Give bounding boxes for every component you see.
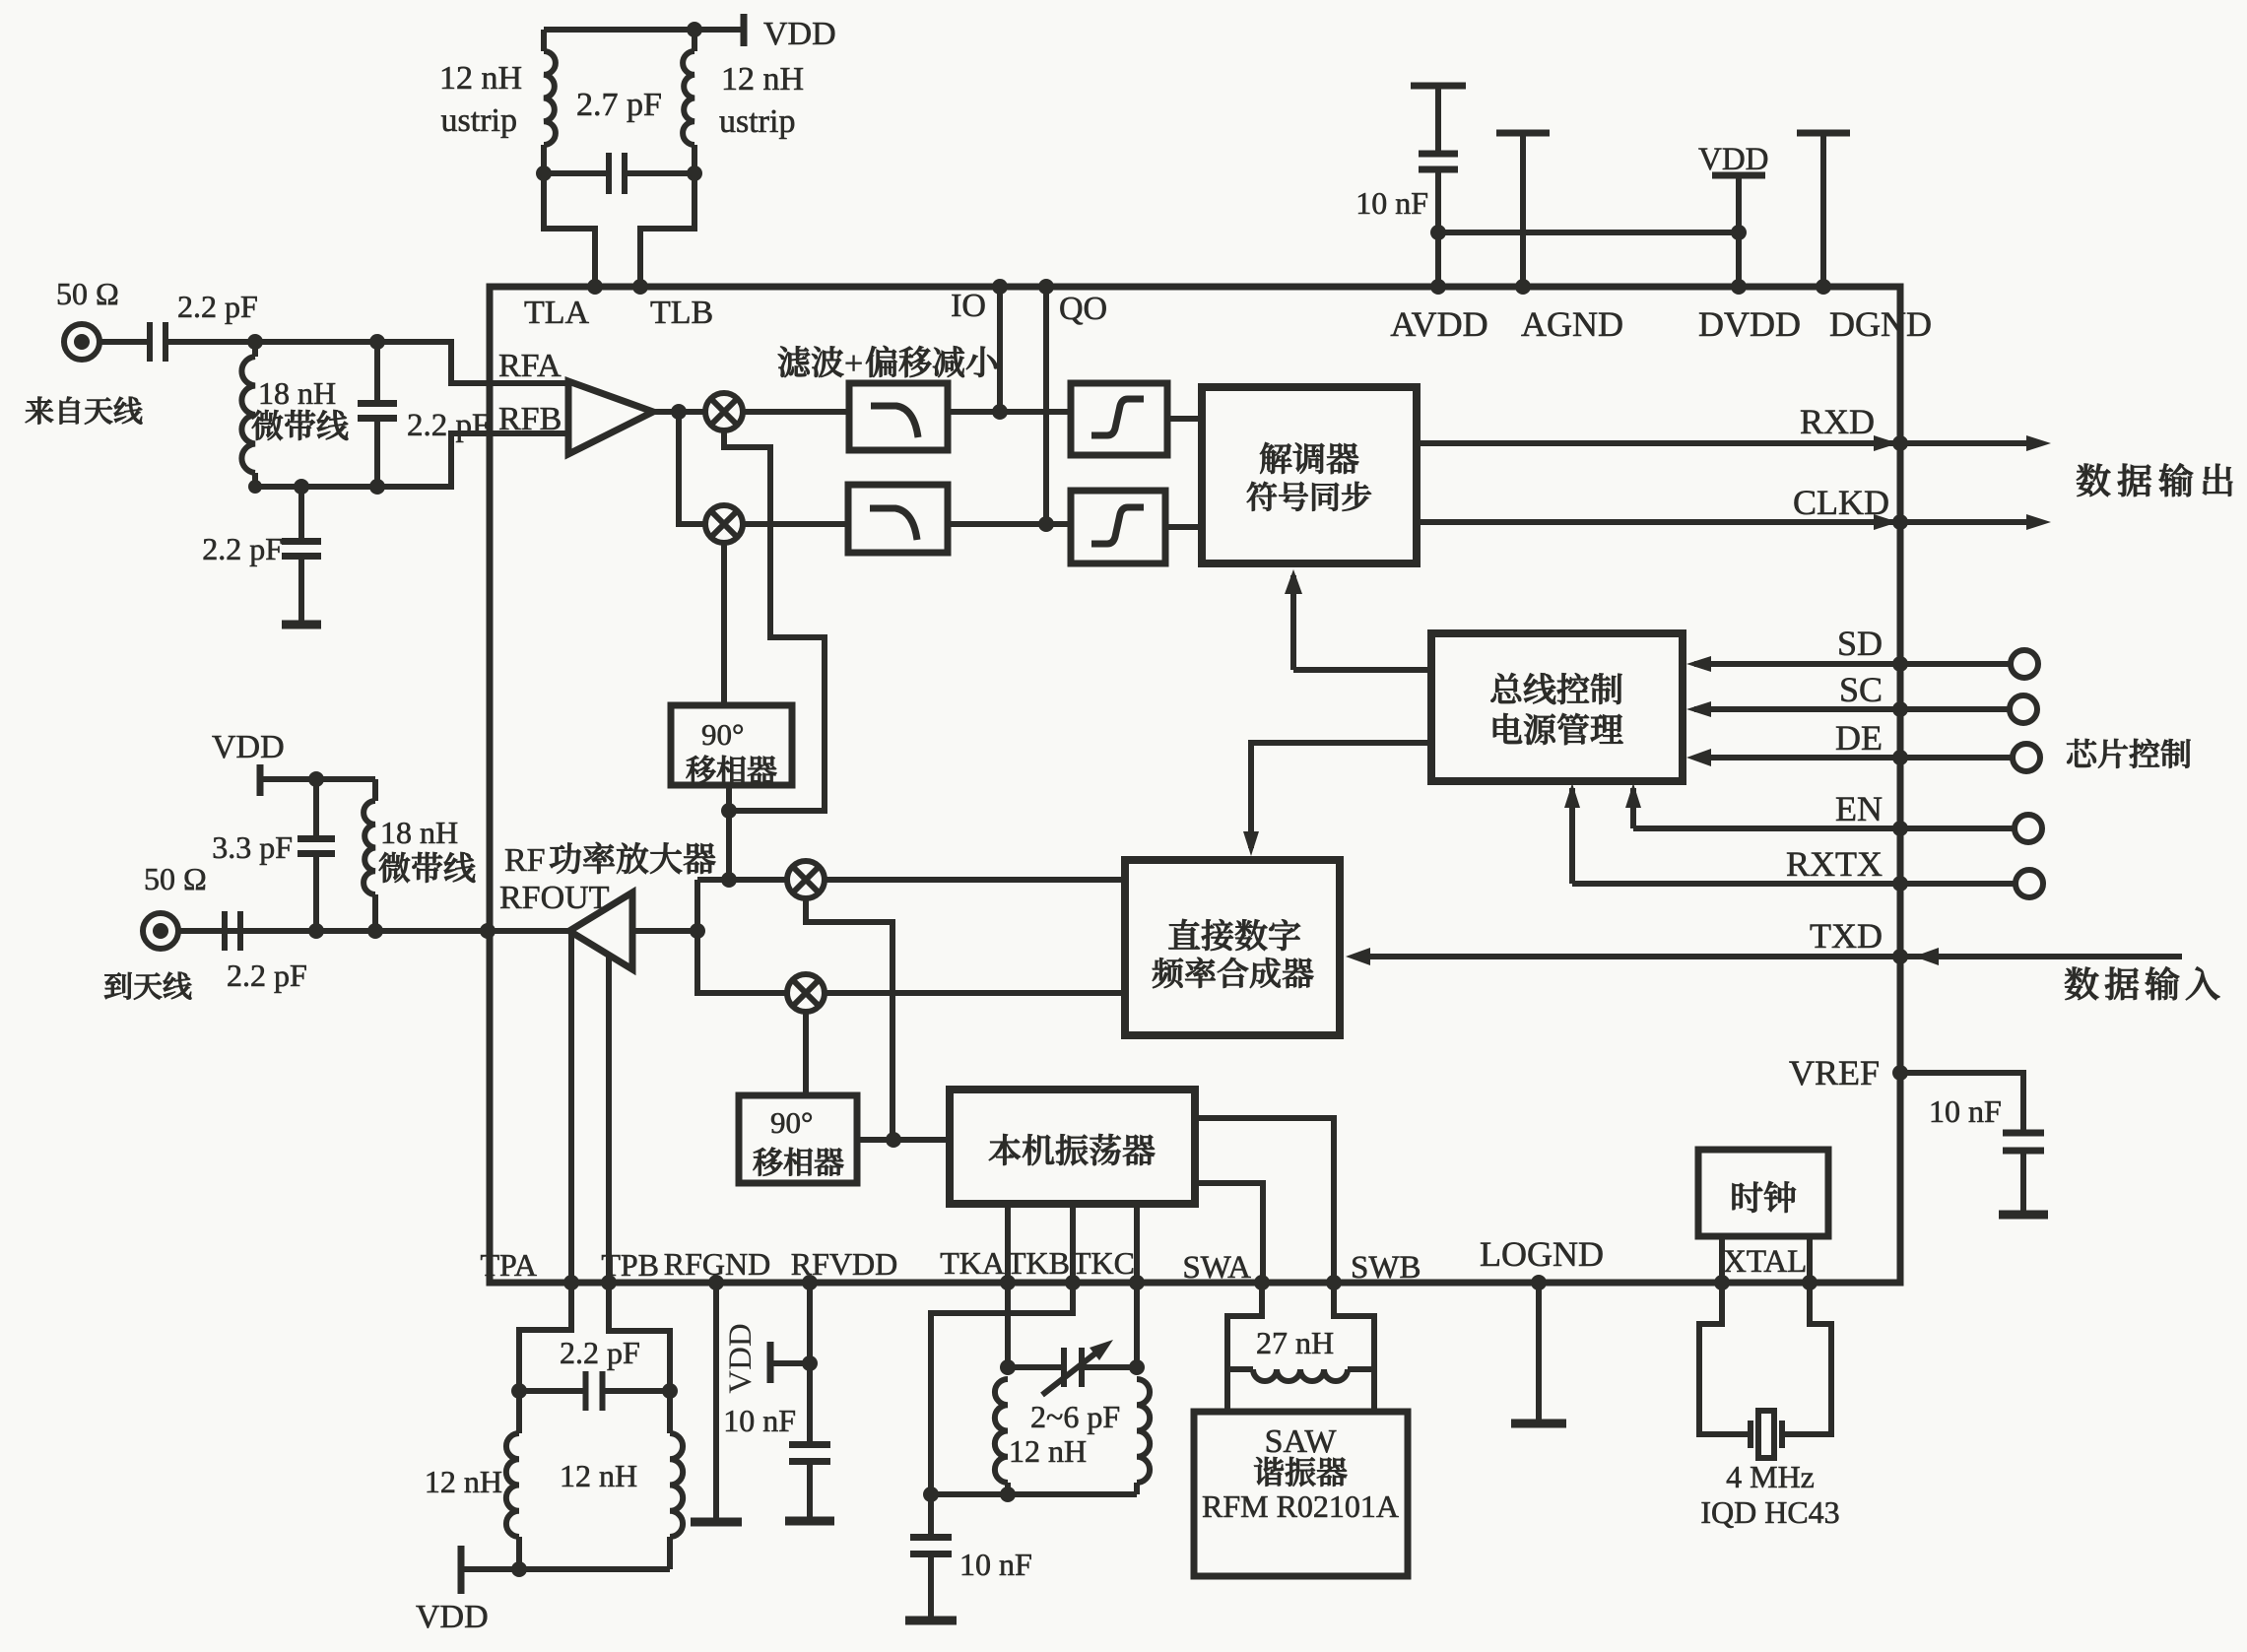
wire TXD to DDS [1354,954,1900,959]
wire TXD external [1900,954,2182,959]
wire tank bottom rail [461,1566,670,1572]
node DGND pin [1816,279,1831,295]
svg-text:TLA: TLA [524,295,590,331]
node tank left [536,165,552,181]
wire F1 to S1 (I row) [948,409,1071,415]
label microstrip (TX) [379,852,475,883]
arrow EN into box bottom [1625,783,1641,808]
mixer M3 (TX I) [787,861,825,898]
wire TPA [568,934,574,1283]
inductor L2 12 nH ustrip (right) [692,145,697,173]
IC U1 RF transceiver boundary box [490,287,1900,1283]
svg-text:TLB: TLB [650,295,713,331]
svg-text:RF: RF [504,842,546,879]
terminal J2 antenna connector (TX) [143,913,178,949]
svg-text:VDD: VDD [416,1599,489,1635]
node RFOUT pin on edge [480,923,496,939]
node TPB [601,1275,617,1290]
svg-text:50 Ω: 50 Ω [144,861,207,896]
capacitor C12 10 nF (AVDD) [1419,154,1458,169]
arrow SD into box [1686,656,1711,672]
svg-text:VDD: VDD [1698,142,1769,177]
node shunt tap [294,479,309,495]
arrow into demod [1285,569,1302,594]
power VDD terminal (RFVDD) [767,1342,774,1383]
wire RFVDD down [807,1283,813,1363]
wire tank bottom [931,1491,1137,1497]
node L3 top [247,334,263,350]
svg-text:SWA: SWA [1182,1250,1251,1286]
capacitor C7 2.2 pF (TP tank) [519,1388,586,1394]
wire DE [1694,755,1900,760]
wire LO to SWB [1195,1118,1334,1283]
terminal SC [2010,695,2037,723]
wire crystal loop left [1699,1283,1751,1434]
wire TKC [1134,1204,1140,1283]
inductor L6 12 nH (right) [667,1391,673,1433]
node shifter bottom [721,803,737,819]
wire RXD external [1900,440,2027,446]
svg-text:LOGND: LOGND [1480,1234,1604,1274]
wire LNA output [653,409,705,415]
svg-text:10 nF: 10 nF [723,1403,796,1438]
wire M1 to F1 [743,409,849,415]
wire M4 to DDS [825,990,1125,996]
svg-text:ustrip: ustrip [441,102,517,139]
svg-text:2.2 pF: 2.2 pF [202,531,283,566]
wire LO node to amp input riser [697,877,729,883]
svg-text:RFA: RFA [498,348,562,384]
wire crystal loop right [1782,1283,1831,1434]
arrow RXD at bus [1874,435,1898,451]
svg-text:SAW: SAW [1265,1423,1338,1460]
block U3 bus control / power management [1431,633,1683,781]
capacitor C5 2.2 pF (TX series) [225,911,240,951]
node tank TPA [511,1383,527,1399]
svg-text:CLKD: CLKD [1793,483,1889,522]
inductor L4 18 nH microstrip (TX) [372,779,378,801]
wire RFA stub [490,380,568,386]
wire F2 to S2 (Q row) [948,521,1071,527]
svg-text:VDD: VDD [763,16,836,52]
svg-text:2~6 pF: 2~6 pF [1030,1399,1120,1434]
label from-antenna [26,397,142,425]
node TX LO junction [886,1132,901,1148]
node SWA [1254,1275,1270,1290]
svg-text:RFM R02101A: RFM R02101A [1202,1488,1399,1524]
node TXD [1892,949,1908,964]
node TPA [563,1275,579,1290]
wire VDD rail (TX match) [260,776,375,782]
capacitor C11 10 nF (tank) [928,1494,934,1537]
node L3 bottom [248,480,262,494]
svg-text:12 nH: 12 nH [721,61,804,98]
block U8 SAW resonator [1194,1412,1408,1576]
wire to mixer M2 [679,412,705,524]
svg-text:12 nH: 12 nH [560,1458,637,1493]
wire TX shifter to LO [857,1137,950,1143]
ground (RX shunt) [282,621,321,629]
wire VREF to C10 [1900,1073,2023,1133]
block U5 90-degree phase shifter (TX) [739,1095,857,1183]
wire TPB to tank [609,1283,670,1391]
block U4 direct digital frequency synthesizer [1125,860,1340,1035]
wire S1 to demod [1167,416,1202,422]
power terminal VDD (DVDD) [1712,172,1765,179]
amplifier A1 LNA [568,381,653,454]
node RXD pin [1892,435,1908,451]
arrow TXD at bus [1914,948,1939,965]
capacitor C10 10 nF (VREF) [2003,1133,2044,1151]
ground (LOGND) [1511,1420,1566,1428]
svg-text:VDD: VDD [723,1323,759,1394]
wire TLB lead [640,173,694,287]
svg-text:2.2 pF: 2.2 pF [177,289,258,324]
node XTAL A [1714,1275,1730,1290]
node tank right [687,165,702,181]
wire RFOUT row [178,928,569,934]
node RFVDD/VDD junction [802,1355,818,1371]
node RXTX [1892,876,1908,892]
wire LOGND to ground [1536,1283,1542,1423]
wire LO node to M3 [729,877,787,883]
amplifier A2 RF power amp [569,892,632,969]
node TLA pin [587,279,603,295]
wire SD [1694,661,1900,667]
inductor L9 27 nH [1227,1366,1253,1372]
svg-text:12 nH: 12 nH [439,60,522,97]
label microstrip (RX) [252,410,348,440]
capacitor C4 2.2 pF (RX shunt) [298,487,304,541]
svg-text:SD: SD [1837,624,1883,663]
wire CLKD out [1417,519,1900,525]
terminal SD [2011,650,2038,678]
wire C2 to RFA node [165,342,490,383]
svg-text:XTAL: XTAL [1723,1244,1807,1280]
wire TKB jog to cap [931,1283,1073,1494]
wire tank top [544,27,744,33]
power VDD terminal (TP tank) [458,1546,465,1594]
label to-antenna [104,972,191,1000]
wire M3 LO port [806,898,892,1140]
ground (RFVDD cap) [785,1517,834,1526]
wire bus box to DDS [1251,743,1431,848]
wire S2 to demod [1165,524,1202,530]
svg-text:TKB: TKB [1007,1245,1070,1281]
svg-text:12 nH: 12 nH [1009,1433,1087,1469]
wire EN [1633,826,1900,831]
terminal DE [2013,744,2040,771]
svg-text:12 nH: 12 nH [425,1464,502,1499]
node varactor right [1129,1359,1145,1375]
wire LO to SWA [1195,1183,1263,1283]
power VDD terminal (top) [741,14,748,46]
node IO tap [992,404,1008,420]
node amp input junction [690,923,705,939]
wire CLKD external [1900,519,2027,525]
arrow SC into box [1686,701,1711,717]
wire RFB stub [490,430,568,436]
inductor L8 12 nH (right) [1137,1379,1150,1483]
node RFGND [708,1275,724,1290]
wire connector to C2 [99,339,150,345]
node tank TPB [662,1383,678,1399]
svg-text:TXD: TXD [1810,916,1883,956]
wire TKB [1070,1204,1076,1283]
wire demod sync input [1293,667,1431,673]
node DVDD pin [1731,279,1747,295]
wire M2 to F2 [743,521,848,527]
wire AGND [1520,133,1526,287]
svg-text:RFOUT: RFOUT [499,880,610,916]
svg-text:ustrip: ustrip [719,103,795,140]
label data-input [2065,966,2219,1000]
node SC [1892,701,1908,717]
inductor L3 18 nH microstrip [252,342,258,357]
power terminal (AVDD top) [1411,83,1466,90]
node XTAL B [1802,1275,1817,1290]
svg-text:50 Ω: 50 Ω [56,276,119,311]
ground (tank cap) [905,1617,957,1625]
wire M3 to DDS [825,877,1125,883]
svg-text:10 nF: 10 nF [1355,185,1428,221]
svg-text:AVDD: AVDD [1390,304,1487,344]
svg-text:DGND: DGND [1829,304,1932,344]
wire amp input [632,928,697,934]
mixer M2 (Q) [705,505,743,543]
node link left [1430,225,1446,240]
svg-text:90°: 90° [701,717,744,752]
svg-text:RXTX: RXTX [1786,844,1883,884]
svg-text:4 MHz: 4 MHz [1726,1459,1815,1494]
node LNA output split [671,404,687,420]
filter F2 lowpass (Q) [848,485,948,553]
wire M4 LO port [803,1012,809,1095]
node VREF [1892,1065,1908,1081]
svg-text:2.2 pF: 2.2 pF [560,1335,640,1370]
node TLB pin [632,279,648,295]
svg-text:SWB: SWB [1351,1250,1421,1286]
capacitor C3 2.2 pF (RX parallel) [374,342,380,403]
slicer S2 (Q) [1071,491,1165,563]
arrow into DDS top [1243,831,1259,856]
svg-text:VREF: VREF [1789,1053,1880,1092]
slicer S1 (I) [1071,383,1167,455]
wire TKA to tank [1005,1283,1011,1367]
svg-text:QO: QO [1059,291,1107,327]
wire M2 LO to shifter top [721,543,727,705]
inductor L1 12 nH ustrip (left) [541,145,547,173]
arrow CLKD at bus [1874,514,1898,530]
node TKC [1129,1275,1145,1290]
ground (VREF cap) [1999,1211,2048,1220]
arrow TXD into DDS [1346,948,1370,965]
mixer M1 (I) [705,393,743,430]
svg-text:TKA: TKA [940,1245,1005,1281]
node CLKD pin [1892,514,1908,530]
node C3 bottom [369,479,385,495]
svg-text:DVDD: DVDD [1698,304,1801,344]
node AGND pin [1515,279,1531,295]
svg-text:VDD: VDD [212,729,285,765]
node C3 top [369,334,385,350]
svg-text:IQD HC43: IQD HC43 [1700,1494,1839,1530]
node LO to TX mixers [721,872,737,888]
wire bottom node to RFB [255,433,490,487]
node tank bottom mid [1000,1487,1016,1502]
arrow DE into box [1686,749,1711,766]
node QO pin [1038,279,1054,295]
svg-text:DE: DE [1835,718,1883,758]
node QO tap [1038,516,1054,532]
svg-text:IO: IO [951,288,986,324]
svg-text:27 nH: 27 nH [1256,1325,1334,1360]
svg-text:AGND: AGND [1521,304,1623,344]
svg-text:18 nH: 18 nH [380,815,458,850]
wire AVDD cap [1435,169,1441,287]
terminal J1 antenna connector (RX) [64,324,99,360]
terminal RXTX [2016,870,2043,897]
arrow RXTX into box bottom [1564,783,1580,808]
node IO pin [992,279,1008,295]
svg-text:TKC: TKC [1072,1245,1135,1281]
inductor L7 12 nH (left) [995,1379,1008,1483]
block U6 local oscillator [950,1090,1195,1204]
node DE [1892,750,1908,765]
svg-text:10 nF: 10 nF [1929,1093,2002,1129]
wire SC [1694,706,1900,712]
wire clock pin B [1807,1236,1813,1283]
label data-output [2077,463,2232,496]
node SD [1892,656,1908,672]
capacitor C2 2.2 pF (RX series) [150,322,165,362]
wire RFGND to ground [713,1283,719,1522]
svg-text:+: + [844,346,863,382]
wire QO pin [1043,287,1049,524]
power terminal (DGND) [1797,130,1850,137]
node tank bottom [511,1561,527,1577]
svg-text:18 nH: 18 nH [258,375,336,411]
node LOGND [1531,1275,1547,1290]
node TX match L [367,923,383,939]
svg-text:RXD: RXD [1800,402,1875,441]
wire M1 LO jog chain [724,430,825,811]
wire TLA lead [544,173,595,287]
wire DGND [1820,133,1826,287]
crystal Y1 4 MHz [1751,1421,1782,1448]
wire TKC to tank [1134,1283,1140,1367]
mixer M4 (TX Q) [787,974,825,1012]
capacitor C8 10 nF (RFVDD) [807,1363,813,1444]
node AVDD pin [1430,279,1446,295]
wire IO pin [997,287,1003,412]
node link right [1731,225,1747,240]
svg-text:2.2 pF: 2.2 pF [227,958,307,993]
node RFVDD [802,1275,818,1290]
wire clock pin A [1719,1236,1725,1283]
ground (RFGND) [691,1518,742,1527]
svg-text:EN: EN [1835,789,1883,828]
node tank/VDD junction [687,22,702,37]
wire DVDD [1736,175,1742,287]
node TKA [1000,1275,1016,1290]
node TX match C [308,923,324,939]
node VDD/C6 junction [308,771,324,787]
wire shifter bottom [726,785,732,880]
inductor L5 12 nH (left) [516,1391,522,1433]
node tank bottom left [923,1487,939,1502]
capacitor C9 variable 2~6 pF [1008,1364,1064,1370]
svg-text:90°: 90° [770,1105,813,1140]
wire SWB to resonator [1334,1283,1374,1412]
wire VREF riser [1897,1073,1903,1283]
wire TKA [1005,1204,1011,1283]
capacitor C6 3.3 pF [313,779,319,838]
wire AVDD-DVDD link [1438,230,1739,235]
label filter+offset-reduction [778,346,843,376]
terminal EN [2015,815,2042,842]
block U2 demodulator / symbol sync [1202,387,1417,563]
svg-text:2.7 pF: 2.7 pF [576,87,662,123]
arrow CLKD end [2026,514,2051,530]
svg-text:3.3 pF: 3.3 pF [212,829,293,865]
label chip-control [2067,739,2190,767]
node SWB [1326,1275,1342,1290]
wire RXD out [1417,440,1900,446]
block U7 90-degree phase shifter (RX) [671,705,792,785]
block U9 clock [1698,1150,1828,1236]
node EN [1892,821,1908,836]
svg-text:10 nF: 10 nF [959,1547,1032,1582]
node varactor left [1000,1359,1016,1375]
capacitor C1 2.7 pF (tank) [544,170,609,176]
wire SWA to resonator [1227,1283,1262,1412]
power terminal (AGND) [1496,130,1550,137]
node TKB [1065,1275,1081,1290]
svg-text:SC: SC [1839,670,1883,709]
arrow RXD end [2026,435,2051,451]
wire TPA to tank [519,1283,571,1391]
wire RXTX [1572,881,1900,887]
filter F1 lowpass (I) [849,383,948,450]
wire TPB [606,956,612,1283]
svg-text:TPA: TPA [480,1247,537,1283]
